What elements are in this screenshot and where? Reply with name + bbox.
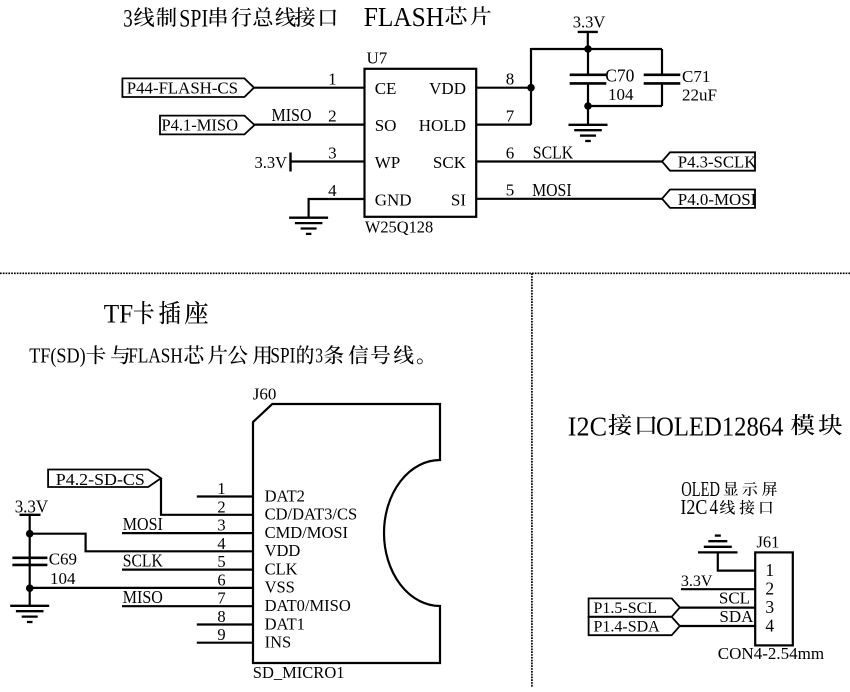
wire C71 bottom lead [661, 83, 663, 106]
net label SCLK (pin6) [533, 142, 574, 162]
connector J60 body [253, 404, 440, 663]
svg-text:SCLK: SCLK [533, 142, 574, 162]
svg-text:C69: C69 [49, 549, 77, 568]
svg-text:5: 5 [217, 552, 225, 571]
svg-text:P4.1-MISO: P4.1-MISO [162, 115, 239, 134]
capacitor C71 [644, 75, 681, 84]
port tag P44-FLASH-CS [122, 78, 254, 97]
pin number 6 [506, 143, 515, 162]
pin number 1 (J60) [217, 479, 225, 498]
value CON4-2.54mm [718, 644, 824, 663]
junction (C70/gnd rail) [584, 102, 592, 110]
svg-text:4: 4 [328, 181, 337, 200]
connector J61 body [755, 552, 793, 645]
svg-text:DAT2: DAT2 [265, 486, 305, 505]
label C69 [49, 549, 77, 568]
svg-text:P4.2-SD-CS: P4.2-SD-CS [56, 470, 145, 489]
pin number 5 (J60) [217, 552, 225, 571]
pin name VDD [265, 541, 301, 560]
svg-text:2: 2 [328, 106, 337, 125]
svg-text:J61: J61 [757, 533, 780, 552]
section divider horizontal [0, 272, 850, 274]
svg-text:J60: J60 [253, 384, 277, 403]
svg-text:3.3V: 3.3V [681, 573, 713, 590]
title: I2C interface OLED12864 module [568, 410, 842, 441]
junction (3.3V rail) [584, 45, 592, 53]
pin number 6 (J60) [217, 570, 225, 589]
svg-text:1: 1 [765, 560, 774, 580]
pin number 8 (J60) [217, 607, 225, 626]
pin number 3 (J60) [217, 516, 225, 535]
svg-text:8: 8 [506, 70, 515, 89]
net label SCLK (J60 pin5) [123, 550, 163, 570]
svg-text:DAT1: DAT1 [265, 614, 305, 633]
wire pin8 VDD [476, 87, 531, 89]
value 104 [608, 85, 634, 104]
svg-text:CMD/MOSI: CMD/MOSI [265, 523, 348, 542]
svg-text:22uF: 22uF [682, 85, 717, 104]
svg-text:1: 1 [328, 70, 337, 89]
svg-text:VSS: VSS [265, 578, 295, 597]
svg-text:SDA: SDA [719, 607, 754, 626]
svg-text:MISO: MISO [123, 587, 163, 607]
svg-text:3: 3 [315, 343, 323, 367]
svg-text:P1.4-SDA: P1.4-SDA [594, 618, 661, 635]
svg-text:4: 4 [765, 615, 774, 635]
pin number 9 (J60) [217, 625, 225, 644]
svg-text:9: 9 [217, 625, 225, 644]
pin number 1 [328, 70, 337, 89]
net label MISO (pin2) [272, 105, 312, 125]
ground (TF) [10, 606, 49, 622]
wire C70 bottom lead [587, 83, 589, 106]
junction (VSS tap) [26, 584, 34, 592]
pin name DAT2 [265, 486, 305, 505]
value W25Q128 [365, 217, 433, 236]
wire pin7 DAT0/MISO [122, 605, 253, 607]
pin number 2 [328, 106, 337, 125]
wire pin5 SI [476, 198, 662, 200]
svg-text:OLED12864: OLED12864 [656, 410, 784, 441]
wire pin2 SO [255, 123, 365, 125]
net label MISO (J60 pin7) [123, 587, 163, 607]
value SD_MICRO1 [253, 663, 345, 682]
svg-text:U7: U7 [367, 49, 388, 68]
wire C70 top lead [587, 49, 589, 75]
wire gnd stub [587, 106, 589, 125]
wire pin7 HOLD [476, 123, 531, 125]
wire pin8 stub (J60) [197, 623, 253, 625]
wire 3.3V vertical (TF) [29, 515, 31, 606]
svg-text:INS: INS [265, 633, 292, 652]
svg-text:I2C: I2C [680, 495, 707, 519]
pin number 4 (J60) [217, 534, 225, 553]
svg-text:GND: GND [375, 191, 412, 210]
wire 3.3V to J61 pin2 [681, 588, 755, 590]
power 3.3V (top) [573, 13, 606, 49]
svg-text:7: 7 [217, 589, 225, 608]
pin name CE [375, 79, 397, 98]
ground (U7 pin4) [289, 218, 328, 234]
net label MOSI (J60 pin3) [123, 514, 163, 534]
svg-text:6: 6 [506, 143, 515, 162]
svg-text:SO: SO [375, 116, 397, 135]
wire gnd to J61 pin1 [718, 552, 755, 570]
svg-text:DAT0/MISO: DAT0/MISO [265, 596, 351, 615]
net label MOSI (pin5) [532, 180, 572, 200]
svg-text:WP: WP [375, 153, 401, 172]
value 22uF [682, 85, 717, 104]
svg-text:3.3V: 3.3V [254, 153, 287, 172]
svg-text:3: 3 [123, 5, 132, 32]
ground (C70/C71) [569, 125, 608, 141]
svg-text:FLASH: FLASH [364, 2, 444, 32]
pin number 7 (J60) [217, 589, 225, 608]
svg-text:104: 104 [50, 569, 76, 588]
wire VDD-HOLD vertical [530, 48, 532, 125]
svg-text:TF(SD): TF(SD) [29, 343, 86, 367]
svg-text:1: 1 [217, 479, 225, 498]
label C70 [605, 66, 634, 86]
svg-text:3: 3 [217, 516, 225, 535]
svg-text:6: 6 [217, 570, 225, 589]
wire pin5 CLK [122, 568, 253, 570]
power 3.3V (TF) [15, 497, 49, 517]
svg-text:CD/DAT3/CS: CD/DAT3/CS [265, 505, 358, 524]
port tag P4.0-MOSI [662, 190, 757, 210]
title: TF card socket [104, 299, 208, 329]
section divider vertical [531, 273, 533, 687]
svg-text:C71: C71 [682, 67, 710, 86]
pin number 2 (J60) [217, 497, 225, 516]
svg-text:W25Q128: W25Q128 [365, 217, 433, 236]
wire bottom rail [588, 105, 662, 107]
svg-text:SCK: SCK [433, 153, 467, 172]
pin number 5 [506, 181, 515, 200]
svg-text:7: 7 [506, 106, 515, 125]
port tag P4.2-SD-CS [48, 470, 161, 489]
wire C71 top lead [661, 49, 663, 75]
label C71 [682, 67, 710, 86]
pin name VSS [265, 578, 295, 597]
wire pin3 WP [291, 160, 365, 162]
pin name SCK [433, 153, 467, 172]
port tag P1.5-SCL [589, 598, 680, 617]
title: FLASH chip [364, 2, 491, 32]
pin name WP [375, 153, 401, 172]
svg-text:VDD: VDD [265, 541, 301, 560]
refdes U7 [367, 49, 388, 68]
power 3.3V (WP) [254, 153, 290, 173]
capacitor C70 [570, 75, 607, 84]
svg-text:FLASH: FLASH [128, 343, 183, 367]
svg-text:4: 4 [710, 495, 719, 519]
svg-text:3.3V: 3.3V [573, 13, 606, 32]
refdes J60 [253, 384, 277, 403]
svg-text:5: 5 [506, 181, 515, 200]
pin name SO [375, 116, 397, 135]
power net 3.3V (OLED) [681, 573, 713, 590]
svg-text:MISO: MISO [272, 105, 312, 125]
pin name CD/DAT3/CS [265, 505, 358, 524]
svg-text:SCL: SCL [719, 589, 750, 608]
svg-text:MOSI: MOSI [532, 180, 572, 200]
svg-text:2: 2 [217, 497, 225, 516]
svg-text:CLK: CLK [265, 559, 298, 578]
svg-text:SI: SI [451, 191, 466, 210]
svg-text:P1.5-SCL: P1.5-SCL [594, 600, 658, 617]
svg-text:SPI: SPI [270, 342, 295, 367]
note: OLED display [681, 477, 777, 501]
svg-text:3: 3 [765, 597, 774, 617]
svg-text:104: 104 [608, 85, 634, 104]
title: 3-wire SPI serial bus interface [123, 5, 336, 32]
pin name DAT1 [265, 614, 305, 633]
pin name CMD/MOSI [265, 523, 348, 542]
pin number 7 [506, 106, 515, 125]
junction (pin8/rail) [527, 84, 535, 92]
wire pin6 SCK [476, 160, 662, 162]
svg-text:CON4-2.54mm: CON4-2.54mm [718, 644, 824, 663]
svg-text:I2C: I2C [568, 410, 607, 441]
pin name CLK [265, 559, 298, 578]
svg-text:SPI: SPI [179, 5, 208, 32]
svg-text:2: 2 [765, 579, 774, 599]
svg-text:TF: TF [104, 299, 134, 329]
pin name VDD [429, 79, 466, 98]
svg-text:8: 8 [217, 607, 225, 626]
wire pin4 GND [309, 199, 365, 218]
pin name INS [265, 633, 292, 652]
svg-text:SCLK: SCLK [123, 550, 163, 570]
wire SCL to J61 pin3 [680, 606, 755, 608]
pin number 3 (J61) [765, 597, 774, 617]
net label SCL [719, 589, 750, 608]
pin number 1 (J61) [765, 560, 774, 580]
pin name GND [375, 191, 412, 210]
value 104 (C69) [50, 569, 76, 588]
svg-text:P4.3-SCLK: P4.3-SCLK [678, 153, 757, 172]
wire pin6 VSS [30, 587, 253, 589]
ground (OLED, inverted) [698, 536, 738, 553]
pin number 3 [328, 143, 337, 162]
svg-text:HOLD: HOLD [419, 116, 466, 135]
wire SDA to J61 pin4 [680, 625, 755, 627]
wire pin3 CMD/MOSI [122, 532, 253, 534]
svg-text:VDD: VDD [429, 79, 466, 98]
junction (VDD tap) [26, 530, 34, 538]
note: I2C 4-wire interface [680, 495, 772, 519]
wire top rail [531, 48, 662, 50]
wire pin4 VDD [30, 534, 253, 552]
svg-text:P44-FLASH-CS: P44-FLASH-CS [127, 79, 238, 98]
pin number 4 [328, 181, 337, 200]
wire pin1 stub (J60) [197, 495, 253, 497]
IC U7 body [365, 69, 477, 217]
wire pin2 CD/DAT3/CS [161, 478, 253, 514]
port tag P4.3-SCLK [662, 152, 757, 171]
svg-text:MOSI: MOSI [123, 514, 163, 534]
pin name DAT0/MISO [265, 596, 351, 615]
port tag P1.4-SDA [589, 617, 680, 636]
note: TF(SD) card shares 3 SPI signal lines with FLASH chip [29, 342, 422, 367]
refdes J61 [757, 533, 780, 552]
svg-text:4: 4 [217, 534, 225, 553]
svg-text:C70: C70 [605, 66, 634, 86]
svg-text:P4.0-MOSI: P4.0-MOSI [678, 190, 757, 209]
pin number 8 [506, 70, 515, 89]
pin number 4 (J61) [765, 615, 774, 635]
wire pin1 CE [254, 87, 365, 89]
svg-text:CE: CE [375, 79, 397, 98]
svg-text:3: 3 [328, 143, 337, 162]
capacitor C69 [12, 558, 47, 565]
wire pin9 stub (J60) [197, 642, 253, 644]
svg-text:SD_MICRO1: SD_MICRO1 [253, 663, 345, 682]
port tag P4.1-MISO [160, 115, 255, 134]
net label SDA [719, 607, 754, 626]
pin number 2 (J61) [765, 579, 774, 599]
pin name SI [451, 191, 466, 210]
pin name HOLD [419, 116, 466, 135]
